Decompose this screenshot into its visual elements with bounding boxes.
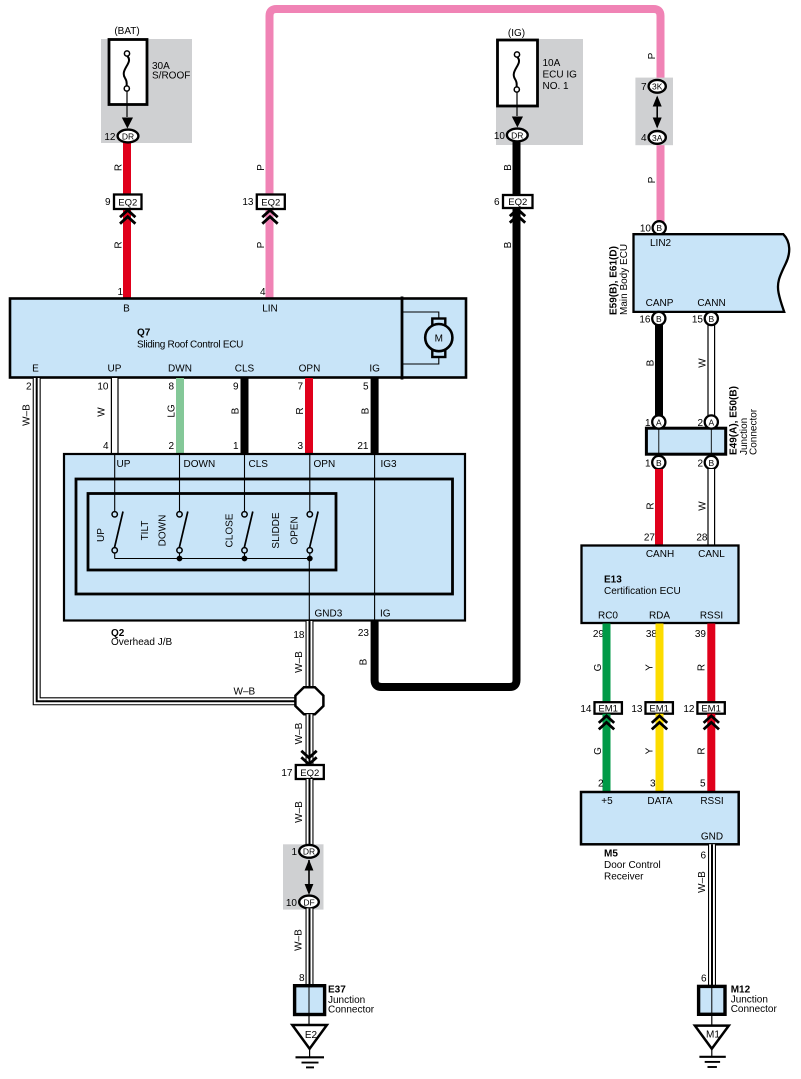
svg-text:1: 1 bbox=[233, 441, 239, 452]
wire fuse output to connector DR bbox=[126, 91, 128, 117]
svg-text:3: 3 bbox=[650, 779, 656, 790]
svg-text:DR: DR bbox=[122, 131, 134, 141]
svg-text:6: 6 bbox=[701, 974, 707, 985]
connector pin 12 DR bbox=[118, 130, 139, 143]
svg-text:UP: UP bbox=[96, 528, 107, 542]
Q2 Overhead J/B block bbox=[64, 454, 465, 621]
svg-text:CLS: CLS bbox=[235, 364, 255, 375]
arrowhead down into DR bbox=[512, 117, 523, 128]
svg-text:R: R bbox=[697, 664, 708, 671]
svg-text:Overhead J/B: Overhead J/B bbox=[111, 637, 172, 648]
svg-text:W: W bbox=[698, 501, 709, 511]
svg-text:DR: DR bbox=[511, 130, 523, 140]
svg-text:10: 10 bbox=[494, 131, 506, 142]
wire black B from IG fuse to elbow and Q2 pin 23 bbox=[375, 138, 517, 687]
ground M1 bbox=[695, 1026, 729, 1049]
chevrons up 9 EQ2 bbox=[120, 210, 135, 224]
svg-text:R: R bbox=[646, 502, 657, 509]
connector pin 1 DR bbox=[299, 845, 319, 858]
connector pin 7 3K bbox=[649, 80, 666, 93]
svg-text:M1: M1 bbox=[706, 1030, 720, 1041]
svg-text:W–B: W–B bbox=[234, 687, 256, 698]
connector 13 EQ2 bbox=[257, 195, 285, 210]
svg-text:14: 14 bbox=[580, 704, 592, 715]
svg-text:EQ2: EQ2 bbox=[300, 768, 319, 779]
svg-text:W–B: W–B bbox=[294, 929, 305, 951]
svg-text:W–B: W–B bbox=[22, 404, 33, 426]
svg-text:CLS: CLS bbox=[249, 459, 269, 470]
svg-text:IG: IG bbox=[380, 609, 391, 620]
svg-text:EM1: EM1 bbox=[701, 703, 721, 714]
svg-text:R: R bbox=[114, 241, 125, 248]
svg-text:Certification ECU: Certification ECU bbox=[604, 586, 681, 597]
svg-text:10A: 10A bbox=[543, 58, 561, 69]
svg-text:Connector: Connector bbox=[749, 408, 760, 455]
svg-text:27: 27 bbox=[644, 533, 656, 544]
svg-text:G: G bbox=[593, 747, 604, 755]
svg-text:M: M bbox=[435, 333, 443, 344]
wire R CANH bbox=[655, 469, 663, 546]
svg-text:B: B bbox=[231, 407, 242, 414]
svg-text:LIN: LIN bbox=[262, 304, 278, 315]
svg-text:E13: E13 bbox=[604, 575, 622, 586]
wire pink P from 3A to B bbox=[657, 142, 665, 222]
svg-text:5: 5 bbox=[700, 779, 706, 790]
wire G RC0 bbox=[603, 624, 611, 703]
svg-text:4: 4 bbox=[103, 441, 109, 452]
wire pink P LIN bus bbox=[270, 9, 661, 298]
svg-text:P: P bbox=[647, 52, 658, 59]
svg-text:2: 2 bbox=[697, 459, 703, 470]
svg-text:B: B bbox=[708, 458, 714, 468]
svg-text:E49(A), E50(B): E49(A), E50(B) bbox=[729, 386, 740, 455]
fuse block 30A S/ROOF background bbox=[101, 39, 192, 143]
arrows between DR and DF bbox=[308, 860, 310, 893]
svg-text:5: 5 bbox=[363, 382, 369, 393]
svg-text:UP: UP bbox=[108, 364, 122, 375]
svg-text:P: P bbox=[647, 176, 658, 183]
wire Y EM1 to M5 bbox=[656, 714, 664, 792]
connector 14 EM1 bbox=[595, 702, 622, 714]
svg-text:9: 9 bbox=[105, 197, 111, 208]
svg-text:(BAT): (BAT) bbox=[114, 26, 139, 37]
svg-text:DR: DR bbox=[303, 847, 315, 857]
svg-text:EM1: EM1 bbox=[598, 703, 618, 714]
svg-text:GND: GND bbox=[701, 831, 723, 842]
switch UP bbox=[96, 512, 123, 559]
svg-text:8: 8 bbox=[299, 973, 305, 984]
svg-text:DATA: DATA bbox=[647, 796, 673, 807]
svg-text:E2: E2 bbox=[305, 1030, 318, 1041]
svg-text:Y: Y bbox=[645, 747, 656, 754]
svg-text:3: 3 bbox=[297, 441, 303, 452]
internal wire GND3 bbox=[308, 559, 310, 621]
motor wiring loop bbox=[403, 312, 439, 319]
svg-text:Main Body ECU: Main Body ECU bbox=[619, 244, 630, 315]
svg-text:B: B bbox=[361, 407, 372, 414]
svg-text:CANL: CANL bbox=[698, 549, 725, 560]
wire G EM1 to M5 bbox=[603, 714, 611, 792]
junction connector M12 bbox=[699, 986, 725, 1014]
wire R EM1 to M5 bbox=[707, 714, 715, 792]
ground E2 bbox=[292, 1025, 327, 1049]
chevrons up 13 EM1 bbox=[652, 716, 667, 730]
gray background DR DF bbox=[283, 844, 324, 909]
svg-text:R: R bbox=[114, 164, 125, 171]
svg-text:B: B bbox=[656, 314, 662, 324]
fuse 10A ECU IG NO.1 bbox=[498, 40, 578, 106]
svg-text:IG3: IG3 bbox=[381, 459, 398, 470]
svg-text:9: 9 bbox=[233, 382, 239, 393]
wire M12 to M1 bbox=[711, 1014, 713, 1025]
svg-text:OPN: OPN bbox=[314, 459, 336, 470]
wire R RSSI bbox=[707, 624, 715, 703]
switch common wire bbox=[115, 558, 310, 560]
node dot DOWN bbox=[177, 556, 183, 562]
svg-text:M5: M5 bbox=[604, 849, 618, 860]
wire W UP bbox=[111, 378, 119, 454]
connector pin 10 DF bbox=[299, 896, 319, 909]
svg-text:Q7: Q7 bbox=[137, 328, 151, 339]
svg-text:1: 1 bbox=[291, 847, 297, 858]
svg-text:W–B: W–B bbox=[294, 801, 305, 823]
svg-text:LG: LG bbox=[167, 404, 178, 418]
Q2 switch box bbox=[88, 494, 336, 571]
svg-text:15: 15 bbox=[692, 315, 704, 326]
wire W-B GND to M12 bbox=[708, 844, 716, 986]
svg-text:A: A bbox=[708, 417, 714, 427]
svg-text:2: 2 bbox=[168, 441, 174, 452]
svg-text:17: 17 bbox=[281, 768, 293, 779]
svg-text:2: 2 bbox=[26, 382, 32, 393]
svg-text:Connector: Connector bbox=[731, 1004, 778, 1015]
svg-text:7: 7 bbox=[297, 382, 303, 393]
svg-text:G: G bbox=[593, 663, 604, 671]
internal wire UP bbox=[114, 454, 116, 512]
junction octagon bbox=[295, 687, 323, 714]
svg-text:8: 8 bbox=[168, 382, 174, 393]
connector 17 EQ2 bbox=[296, 765, 324, 779]
motor M1 brushes bbox=[432, 319, 445, 326]
svg-text:18: 18 bbox=[293, 630, 305, 641]
svg-text:DWN: DWN bbox=[168, 364, 192, 375]
wire W-B from EQ2 to DR bbox=[306, 779, 314, 845]
svg-text:RC0: RC0 bbox=[598, 611, 618, 622]
connector 13 EM1 bbox=[646, 702, 673, 714]
wire W-B below junction bbox=[306, 714, 314, 765]
svg-text:W: W bbox=[97, 407, 108, 417]
svg-text:B: B bbox=[708, 314, 714, 324]
svg-text:6: 6 bbox=[700, 851, 706, 862]
chevrons down above 17 EQ2 bbox=[301, 751, 316, 765]
svg-text:NO. 1: NO. 1 bbox=[543, 81, 570, 92]
svg-text:Receiver: Receiver bbox=[604, 872, 644, 883]
motor M bbox=[425, 324, 452, 351]
connector pin 2 B bbox=[705, 456, 718, 469]
svg-text:GND3: GND3 bbox=[315, 609, 343, 620]
svg-text:UP: UP bbox=[117, 459, 131, 470]
Q7 Sliding Roof Control ECU block bbox=[10, 299, 466, 378]
svg-text:RSSI: RSSI bbox=[700, 611, 723, 622]
Main Body ECU block E59(B) E61(D) bbox=[634, 234, 790, 312]
arrows between 3K and 3A bbox=[656, 97, 658, 127]
svg-text:OPEN: OPEN bbox=[289, 516, 300, 544]
wire W CANL bbox=[707, 469, 715, 546]
wire E37 to E2 bbox=[308, 1015, 310, 1026]
svg-text:6: 6 bbox=[494, 197, 500, 208]
wire W CANN bbox=[707, 324, 715, 416]
fuse block 10A ECU IG background bbox=[496, 39, 583, 145]
svg-text:SLIDDE: SLIDDE bbox=[271, 512, 282, 548]
connector pin 1 A bbox=[652, 415, 665, 428]
svg-text:10: 10 bbox=[640, 224, 652, 235]
E13 Certification ECU block bbox=[582, 546, 739, 624]
internal wire DOWN bbox=[179, 454, 181, 512]
svg-text:W–B: W–B bbox=[294, 651, 305, 673]
M5 Door Control Receiver block bbox=[581, 792, 739, 844]
svg-text:Connector: Connector bbox=[328, 1005, 375, 1016]
svg-text:B: B bbox=[656, 458, 662, 468]
chevrons up 6 EQ2 bbox=[510, 209, 525, 223]
svg-text:E37: E37 bbox=[328, 985, 346, 996]
svg-text:RDA: RDA bbox=[649, 611, 670, 622]
svg-text:OPN: OPN bbox=[299, 364, 321, 375]
svg-text:3K: 3K bbox=[652, 82, 663, 92]
switch SLIDDE OPEN bbox=[271, 512, 318, 559]
connector pin 15 B bbox=[705, 312, 718, 325]
wire W-B from E pin to ground junction bbox=[37, 378, 296, 701]
svg-text:B: B bbox=[359, 658, 370, 665]
svg-text:1: 1 bbox=[645, 418, 651, 429]
svg-text:W–B: W–B bbox=[294, 722, 305, 744]
svg-text:16: 16 bbox=[639, 315, 651, 326]
svg-text:LIN2: LIN2 bbox=[650, 238, 672, 249]
svg-text:EM1: EM1 bbox=[649, 703, 669, 714]
internal wire OPN bbox=[309, 454, 311, 512]
wire B IG bbox=[371, 378, 379, 454]
svg-text:13: 13 bbox=[631, 704, 643, 715]
svg-text:RSSI: RSSI bbox=[700, 796, 723, 807]
svg-text:Sliding Roof Control ECU: Sliding Roof Control ECU bbox=[137, 340, 243, 351]
svg-text:+5: +5 bbox=[601, 796, 613, 807]
svg-text:ECU IG: ECU IG bbox=[543, 70, 578, 81]
connector 6 EQ2 bbox=[503, 195, 533, 208]
connector pin 10 DR bbox=[507, 129, 528, 142]
wire W-B from DF to E37 bbox=[306, 908, 314, 986]
connector pin 2 A bbox=[705, 415, 718, 428]
arrowhead down into DR bbox=[122, 118, 133, 129]
svg-text:4: 4 bbox=[260, 287, 266, 298]
junction connector E49(A) E50(B) box bbox=[646, 428, 725, 454]
svg-text:DF: DF bbox=[303, 897, 314, 907]
svg-text:10: 10 bbox=[286, 898, 298, 909]
connector pin 16 B bbox=[652, 312, 665, 325]
wire fuse output to connector DR bbox=[516, 92, 518, 116]
svg-text:12: 12 bbox=[683, 704, 695, 715]
internal wire CLS bbox=[244, 454, 246, 512]
svg-text:B: B bbox=[123, 304, 130, 315]
wire W-B from Q2 pin 18 to junction bbox=[306, 621, 314, 688]
connector pin 1 B bbox=[652, 456, 665, 469]
svg-text:R: R bbox=[697, 747, 708, 754]
wire B CANP bbox=[655, 324, 663, 416]
svg-text:R: R bbox=[295, 407, 306, 414]
wire Y RDA bbox=[656, 624, 664, 703]
fuse 30A S/ROOF bbox=[109, 40, 190, 105]
svg-text:B: B bbox=[503, 241, 514, 248]
switch TILT DOWN bbox=[140, 512, 188, 559]
wire LG DWN bbox=[176, 378, 184, 454]
svg-text:DOWN: DOWN bbox=[158, 515, 169, 547]
svg-text:1: 1 bbox=[117, 287, 123, 298]
svg-text:2: 2 bbox=[598, 779, 604, 790]
svg-text:3A: 3A bbox=[652, 133, 663, 143]
wire R OPN bbox=[305, 378, 313, 454]
svg-text:CANN: CANN bbox=[697, 298, 725, 309]
node dot OPEN bbox=[307, 556, 313, 562]
svg-text:4: 4 bbox=[641, 133, 647, 144]
svg-text:10: 10 bbox=[97, 382, 109, 393]
svg-text:B: B bbox=[503, 164, 514, 171]
svg-text:CLOSE: CLOSE bbox=[225, 513, 236, 547]
svg-text:P: P bbox=[256, 241, 267, 248]
svg-text:E59(B), E61(D): E59(B), E61(D) bbox=[609, 246, 620, 315]
chevrons up 12 EM1 bbox=[704, 716, 719, 730]
wire B CLS bbox=[241, 378, 249, 454]
wire red B from fuse to Q7 bbox=[123, 138, 131, 298]
Q7 motor divider bbox=[401, 297, 404, 380]
svg-text:CANH: CANH bbox=[646, 549, 674, 560]
svg-text:13: 13 bbox=[242, 197, 254, 208]
svg-text:TILT: TILT bbox=[140, 521, 151, 541]
node dot CLOSE bbox=[242, 556, 248, 562]
internal wire IG3 to IG bbox=[374, 454, 376, 621]
svg-text:S/ROOF: S/ROOF bbox=[152, 71, 190, 82]
connector 12 EM1 bbox=[697, 702, 724, 714]
svg-text:EQ2: EQ2 bbox=[261, 198, 280, 209]
svg-text:DOWN: DOWN bbox=[184, 459, 216, 470]
svg-text:12: 12 bbox=[104, 132, 116, 143]
svg-text:1: 1 bbox=[645, 459, 651, 470]
svg-text:B: B bbox=[646, 359, 657, 366]
gray background 3K 3A bbox=[635, 78, 673, 146]
svg-text:B: B bbox=[656, 223, 662, 233]
svg-text:39: 39 bbox=[695, 629, 707, 640]
connector pin 10 B into LIN2 bbox=[653, 221, 666, 234]
chevrons up 13 EQ2 bbox=[262, 210, 277, 224]
svg-text:(IG): (IG) bbox=[508, 28, 525, 39]
svg-text:EQ2: EQ2 bbox=[508, 197, 527, 208]
svg-text:P: P bbox=[256, 164, 267, 171]
svg-text:W–B: W–B bbox=[697, 871, 708, 893]
svg-text:A: A bbox=[656, 417, 662, 427]
Q2 inner frame bbox=[76, 479, 453, 594]
svg-text:EQ2: EQ2 bbox=[118, 198, 137, 209]
svg-text:7: 7 bbox=[641, 82, 647, 93]
connector pin 4 3A bbox=[649, 131, 666, 144]
svg-text:IG: IG bbox=[369, 364, 380, 375]
svg-text:23: 23 bbox=[358, 628, 370, 639]
chevrons up 14 EM1 bbox=[599, 716, 614, 730]
svg-text:Door Control: Door Control bbox=[604, 860, 661, 871]
switch CLOSE bbox=[225, 512, 253, 559]
junction connector E37 bbox=[295, 986, 325, 1015]
svg-text:Y: Y bbox=[645, 664, 656, 671]
connector 9 EQ2 bbox=[114, 195, 142, 210]
svg-text:CANP: CANP bbox=[646, 298, 674, 309]
svg-text:E: E bbox=[32, 364, 39, 375]
svg-text:2: 2 bbox=[697, 418, 703, 429]
svg-text:28: 28 bbox=[696, 533, 708, 544]
svg-text:21: 21 bbox=[357, 441, 369, 452]
svg-text:W: W bbox=[698, 358, 709, 368]
